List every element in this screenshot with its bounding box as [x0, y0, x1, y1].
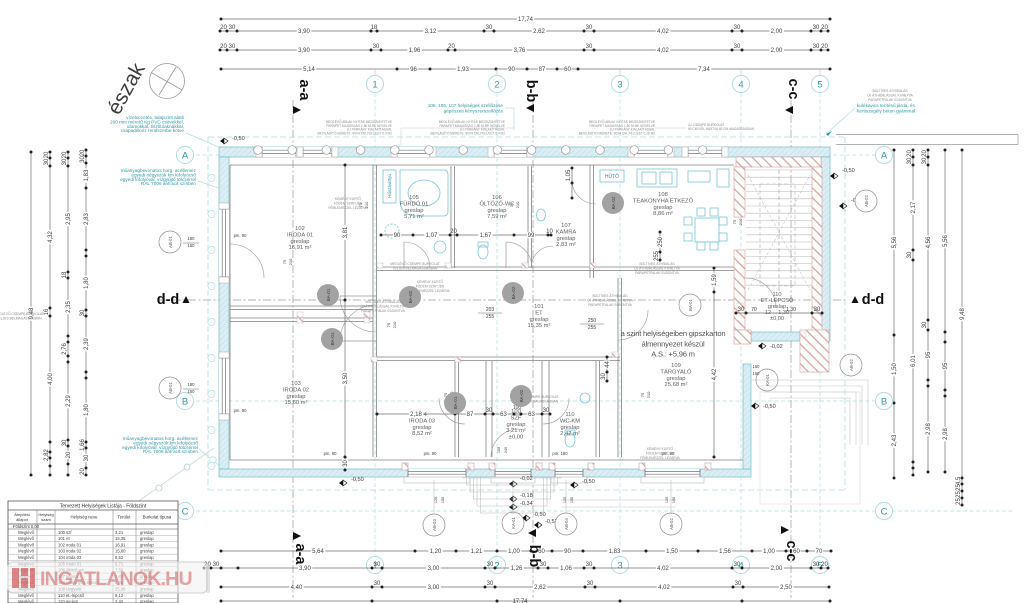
svg-text:IRODA 02: IRODA 02: [283, 387, 309, 393]
svg-text:2,76: 2,76: [62, 343, 68, 355]
svg-text:150: 150: [441, 497, 445, 503]
svg-text:pm. 90: pm. 90: [424, 451, 437, 456]
svg-text:BA-02: BA-02: [519, 389, 524, 402]
svg-text:2,62: 2,62: [534, 585, 546, 591]
svg-text:2,39: 2,39: [84, 338, 90, 350]
svg-text:70: 70: [816, 549, 823, 555]
svg-text:3,90: 3,90: [298, 29, 310, 35]
svg-text:30: 30: [813, 25, 820, 31]
svg-text:BA-02: BA-02: [511, 286, 516, 299]
svg-text:30: 30: [80, 156, 86, 163]
svg-text:30: 30: [373, 44, 380, 50]
svg-text:30: 30: [813, 44, 820, 50]
svg-text:b-b: b-b: [523, 80, 539, 103]
svg-text:ÚJ ÁTHIDALÁSSAL KIVÁLTVA: ÚJ ÁTHIDALÁSSAL KIVÁLTVA: [634, 266, 680, 270]
svg-text:1,30: 1,30: [786, 307, 796, 313]
svg-text:1,00: 1,00: [508, 549, 520, 555]
svg-text:30: 30: [80, 309, 86, 316]
svg-text:KAMRA: KAMRA: [556, 229, 577, 235]
svg-text:greslap: greslap: [653, 205, 672, 211]
svg-text:30: 30: [907, 157, 913, 164]
svg-text:110 et.-lépcső: 110 et.-lépcső: [58, 593, 85, 598]
svg-text:103: 103: [291, 381, 301, 387]
svg-text:8,52: 8,52: [115, 555, 124, 560]
svg-text:AB-01: AB-01: [168, 382, 173, 394]
svg-text:30: 30: [374, 581, 381, 587]
svg-text:Meglévő: Meglévő: [18, 549, 34, 554]
svg-text:75: 75: [386, 322, 391, 327]
svg-text:BEVILÁGÍTÓ MÉRETE: 90X4 CM, FE: BEVILÁGÍTÓ MÉRETE: 90X4 CM, FELÜLET 0,4 …: [317, 130, 392, 135]
svg-text:30: 30: [586, 562, 593, 568]
svg-text:a szint helyiségeiben gipszkar: a szint helyiségeiben gipszkarton: [621, 329, 726, 338]
svg-text:95: 95: [943, 362, 949, 369]
svg-text:120: 120: [665, 497, 669, 503]
svg-text:A: A: [881, 150, 888, 161]
svg-text:1,66: 1,66: [80, 439, 86, 451]
svg-text:AB-03: AB-03: [432, 519, 437, 531]
svg-text:greslap: greslap: [140, 549, 154, 554]
svg-text:TÁRGYALÓ: TÁRGYALÓ: [660, 368, 692, 375]
svg-text:18: 18: [371, 25, 378, 31]
svg-text:RAL 7006 anfracit színben: RAL 7006 anfracit színben: [141, 181, 196, 186]
svg-text:MEGLÉVŐ CSEMPE BURKOLAT: MEGLÉVŐ CSEMPE BURKOLAT: [0, 311, 44, 316]
svg-text:Hőszivattyú: Hőszivattyú: [387, 174, 392, 198]
svg-text:greslap: greslap: [140, 530, 154, 535]
svg-text:150: 150: [753, 364, 761, 369]
svg-text:3,90: 3,90: [299, 566, 311, 572]
svg-text:C: C: [182, 506, 189, 517]
svg-text:AB-02: AB-02: [864, 195, 869, 207]
svg-text:8,86 m²: 8,86 m²: [653, 211, 673, 217]
svg-text:1,00: 1,00: [763, 549, 775, 555]
svg-text:AB-01: AB-01: [168, 236, 173, 248]
svg-text:5,56: 5,56: [892, 236, 898, 248]
svg-text:3,21 m²: 3,21 m²: [506, 428, 526, 434]
svg-text:20: 20: [80, 149, 86, 156]
svg-text:FÖDÉM SZINTJÉN: FÖDÉM SZINTJÉN: [646, 450, 675, 455]
svg-text:AB-04: AB-04: [564, 518, 569, 530]
svg-text:BA-01: BA-01: [330, 332, 335, 345]
svg-text:ÚJ ÁTHIDALÁSSAL KIVÁLTVA: ÚJ ÁTHIDALÁSSAL KIVÁLTVA: [867, 93, 913, 97]
svg-text:greslap: greslap: [290, 239, 309, 245]
svg-text:1,83: 1,83: [609, 549, 621, 555]
svg-text:KÉMÉNY KÜRTŐ: KÉMÉNY KÜRTŐ: [335, 196, 362, 201]
svg-text:4,5: 4,5: [956, 476, 962, 485]
svg-text:1,50: 1,50: [666, 549, 678, 555]
svg-text:90: 90: [508, 67, 515, 73]
svg-text:20: 20: [821, 562, 828, 568]
svg-text:60: 60: [564, 67, 571, 73]
svg-text:1,83: 1,83: [84, 169, 90, 181]
svg-text:Meglévő: Meglévő: [18, 530, 34, 535]
svg-text:95: 95: [926, 351, 932, 358]
svg-text:kertiszegély beton gyámmal: kertiszegély beton gyámmal: [857, 108, 915, 113]
svg-text:±0,00: ±0,00: [770, 316, 784, 322]
svg-text:30: 30: [907, 251, 913, 258]
svg-text:4,56: 4,56: [926, 236, 932, 248]
svg-text:2,29: 2,29: [66, 395, 72, 407]
svg-text:8,52 m²: 8,52 m²: [412, 431, 432, 437]
svg-text:greslap: greslap: [487, 208, 506, 214]
svg-text:5,64: 5,64: [312, 549, 324, 555]
svg-text:2,00: 2,00: [771, 29, 783, 35]
svg-text:150: 150: [753, 371, 761, 376]
svg-text:B: B: [881, 396, 887, 407]
svg-text:greslap: greslap: [412, 425, 431, 431]
svg-text:2,00: 2,00: [771, 566, 783, 572]
svg-text:d-d: d-d: [862, 292, 885, 308]
svg-text:gépészeti kényszerszellőzés: gépészeti kényszerszellőzés: [444, 108, 504, 113]
svg-text:5,71 m²: 5,71 m²: [404, 214, 424, 220]
svg-text:pm. 180: pm. 180: [552, 451, 568, 456]
svg-text:30: 30: [487, 562, 494, 568]
svg-text:BA-01: BA-01: [453, 396, 458, 409]
svg-text:110: 110: [565, 412, 574, 418]
svg-text:TEAKONYHA ÉTKEZŐ: TEAKONYHA ÉTKEZŐ: [633, 197, 694, 204]
svg-text:FÉMLEMEZZEL LEZÁRVA: FÉMLEMEZZEL LEZÁRVA: [328, 205, 368, 210]
svg-text:30: 30: [486, 408, 493, 414]
svg-text:2,62: 2,62: [533, 29, 545, 35]
svg-text:4,02: 4,02: [657, 48, 669, 54]
svg-text:1,80: 1,80: [84, 404, 90, 416]
svg-text:63: 63: [528, 412, 535, 418]
svg-text:96: 96: [410, 67, 417, 73]
svg-text:25: 25: [956, 484, 962, 491]
svg-text:30: 30: [213, 562, 220, 568]
svg-text:BA-02: BA-02: [611, 196, 616, 209]
svg-text:Meglévő: Meglévő: [18, 555, 34, 560]
svg-text:2,42 m²: 2,42 m²: [560, 431, 580, 437]
svg-text:250: 250: [588, 318, 597, 324]
svg-text:AB-02: AB-02: [849, 359, 854, 371]
svg-text:4,02: 4,02: [658, 585, 670, 591]
svg-text:INGATLANOK.HU: INGATLANOK.HU: [40, 568, 192, 590]
svg-text:Meglévő: Meglévő: [18, 593, 34, 598]
svg-text:4,02: 4,02: [657, 29, 669, 35]
svg-text:d-d: d-d: [157, 292, 180, 308]
svg-text:BA-02: BA-02: [408, 290, 413, 303]
svg-text:30: 30: [62, 158, 68, 165]
svg-text:TELJES BELMAGASSÁGBAN: TELJES BELMAGASSÁGBAN: [393, 266, 439, 270]
svg-text:6,01: 6,01: [911, 355, 917, 367]
svg-text:3,21: 3,21: [115, 530, 124, 535]
svg-text:csapadékvíz rendszerbe kötve: csapadékvíz rendszerbe kötve: [121, 128, 185, 133]
svg-text:75: 75: [732, 219, 737, 224]
svg-text:30: 30: [922, 157, 928, 164]
svg-text:15,35 m²: 15,35 m²: [528, 323, 551, 329]
svg-text:A: A: [182, 150, 189, 161]
svg-text:B: B: [182, 396, 188, 407]
svg-text:2,98: 2,98: [943, 428, 949, 440]
svg-text:75: 75: [282, 259, 287, 264]
svg-text:KÉMÉNY KÜRTŐ: KÉMÉNY KÜRTŐ: [647, 446, 674, 451]
svg-text:1,67: 1,67: [480, 233, 492, 239]
svg-text:greslap: greslap: [529, 317, 548, 323]
svg-text:1,50: 1,50: [892, 363, 898, 375]
svg-text:KÉMÉNY KÜRTŐ: KÉMÉNY KÜRTŐ: [417, 279, 444, 284]
svg-text:2,43: 2,43: [892, 434, 898, 446]
svg-text:10: 10: [546, 229, 553, 235]
svg-text:1,20: 1,20: [430, 549, 442, 555]
svg-text:b-b: b-b: [526, 545, 542, 568]
svg-text:1,80: 1,80: [84, 277, 90, 289]
svg-text:FÉMLEMEZZEL LEZÁRVA: FÉMLEMEZZEL LEZÁRVA: [640, 455, 680, 460]
svg-text:150: 150: [570, 497, 574, 503]
svg-text:IRODA 03: IRODA 03: [409, 418, 435, 424]
svg-text:25: 25: [956, 491, 962, 498]
svg-text:110 wc-km: 110 wc-km: [58, 599, 78, 603]
svg-text:BA-01: BA-01: [326, 288, 331, 301]
svg-text:30: 30: [586, 44, 593, 50]
svg-text:BOLTÍVES ÁTHIDALÁS: BOLTÍVES ÁTHIDALÁS: [872, 89, 908, 93]
svg-text:SZF: SZF: [511, 415, 522, 421]
svg-text:Meglévő: Meglévő: [18, 536, 34, 541]
svg-text:3,50: 3,50: [343, 372, 349, 384]
svg-text:2,18: 2,18: [410, 412, 422, 418]
svg-text:16,91 m²: 16,91 m²: [289, 245, 312, 251]
svg-text:20: 20: [922, 150, 928, 157]
svg-text:99: 99: [528, 233, 535, 239]
svg-text:4,00: 4,00: [48, 373, 54, 385]
svg-text:15,60: 15,60: [115, 549, 126, 554]
svg-text:25: 25: [956, 498, 962, 505]
svg-text:30: 30: [487, 581, 494, 587]
svg-text:PARAPETFALAK ELBONTVA: PARAPETFALAK ELBONTVA: [868, 98, 912, 102]
svg-text:20: 20: [448, 44, 455, 50]
svg-text:30: 30: [343, 460, 349, 467]
svg-text:108: 108: [658, 192, 668, 198]
svg-text:17,74: 17,74: [512, 599, 528, 603]
svg-text:30: 30: [229, 44, 236, 50]
svg-text:BEVILÁGÍTÓ MÉRETE: 90X4 CM, FE: BEVILÁGÍTÓ MÉRETE: 90X4 CM, FELÜLET 0,26…: [579, 130, 656, 135]
svg-text:ET.-LÉPCSŐ: ET.-LÉPCSŐ: [761, 297, 794, 304]
svg-text:30: 30: [62, 439, 68, 446]
svg-text:3,00: 3,00: [428, 585, 440, 591]
svg-text:5,14: 5,14: [303, 67, 315, 73]
svg-text:szám: szám: [41, 517, 51, 522]
svg-text:102 iroda 01: 102 iroda 01: [58, 542, 82, 547]
svg-text:90: 90: [394, 233, 401, 239]
svg-text:3,81: 3,81: [343, 226, 349, 238]
svg-text:240: 240: [504, 447, 508, 453]
svg-text:c-c: c-c: [783, 541, 799, 562]
svg-text:BA-01: BA-01: [688, 299, 693, 311]
svg-text:5: 5: [817, 79, 822, 90]
svg-text:greslap: greslap: [140, 593, 154, 598]
svg-text:±0,00: ±0,00: [509, 435, 523, 441]
svg-text:pm. 90: pm. 90: [234, 408, 247, 413]
svg-text:kulékavics terítésű járda, és: kulékavics terítésű járda, és: [857, 103, 915, 108]
svg-text:103 iroda 02: 103 iroda 02: [58, 549, 82, 554]
svg-text:30: 30: [922, 321, 928, 328]
svg-text:20: 20: [220, 25, 227, 31]
svg-text:TELJES BELMAGASSÁGBAN: TELJES BELMAGASSÁGBAN: [0, 316, 42, 320]
svg-text:3: 3: [617, 79, 622, 90]
svg-text:3,76: 3,76: [514, 48, 526, 54]
svg-text:7,59 m²: 7,59 m²: [487, 214, 507, 220]
svg-text:állapot: állapot: [16, 517, 29, 522]
svg-text:30: 30: [229, 25, 236, 31]
svg-text:120: 120: [563, 497, 567, 503]
svg-text:5,56: 5,56: [943, 235, 949, 247]
svg-text:104 iroda 03: 104 iroda 03: [58, 555, 82, 560]
svg-text:greslap: greslap: [556, 236, 575, 242]
svg-text:-0,18: -0,18: [520, 493, 533, 499]
svg-text:210: 210: [392, 321, 397, 328]
svg-text:greslap: greslap: [506, 422, 525, 428]
svg-text:63: 63: [500, 412, 507, 418]
svg-text:20: 20: [44, 151, 50, 158]
svg-text:FÜRDŐ 01: FÜRDŐ 01: [400, 200, 429, 207]
svg-text:Meglévő: Meglévő: [18, 599, 34, 603]
svg-text:4,40: 4,40: [291, 585, 303, 591]
svg-text:2,95: 2,95: [66, 213, 72, 225]
svg-text:4,32: 4,32: [48, 231, 54, 243]
svg-text:greslap: greslap: [666, 376, 685, 382]
svg-text:-0,02: -0,02: [520, 476, 533, 482]
svg-text:90 CM-RŐL INDÍTVA 60 CM MAGASS: 90 CM-RŐL INDÍTVA 60 CM MAGASSÁGBAN: [688, 126, 755, 131]
svg-text:Tervezett Helyiségek Listája -: Tervezett Helyiségek Listája - Földszint: [60, 504, 147, 510]
svg-text:KA-01: KA-01: [511, 517, 516, 529]
svg-text:-0,50: -0,50: [582, 479, 595, 485]
svg-text:1,96: 1,96: [409, 48, 421, 54]
svg-text:Terület: Terület: [118, 515, 132, 520]
svg-text:180: 180: [188, 236, 196, 241]
svg-text:4: 4: [738, 79, 743, 90]
svg-text:30: 30: [601, 373, 607, 380]
svg-text:20: 20: [821, 44, 828, 50]
svg-text:87: 87: [467, 412, 474, 418]
svg-text:102: 102: [295, 226, 305, 232]
svg-text:100 szf: 100 szf: [58, 530, 72, 535]
svg-text:30: 30: [734, 25, 741, 31]
svg-text:FÖDÉM SZINTJÉN: FÖDÉM SZINTJÉN: [416, 283, 445, 288]
svg-text:2: 2: [494, 560, 499, 571]
svg-text:20: 20: [450, 229, 457, 235]
svg-text:75: 75: [509, 202, 514, 207]
svg-text:105: 105: [409, 195, 419, 201]
svg-text:IRODA 01: IRODA 01: [287, 232, 313, 238]
svg-text:30: 30: [813, 562, 820, 568]
svg-text:87: 87: [539, 67, 546, 73]
svg-text:HŰTŐ: HŰTŐ: [605, 173, 619, 180]
svg-text:210: 210: [738, 218, 743, 225]
svg-text:1,93: 1,93: [457, 67, 469, 73]
svg-text:BOLTÍVES ÁTHIDALÁS: BOLTÍVES ÁTHIDALÁS: [592, 294, 628, 298]
svg-text:100: 100: [497, 447, 501, 453]
svg-text:30: 30: [587, 581, 594, 587]
svg-text:4,02: 4,02: [657, 566, 669, 572]
svg-text:3,90: 3,90: [298, 48, 310, 54]
svg-text:Burkolat típusa: Burkolat típusa: [143, 515, 172, 520]
svg-text:4,42: 4,42: [712, 368, 718, 380]
svg-text:15,60 m²: 15,60 m²: [285, 400, 308, 406]
svg-text:pm. 90: pm. 90: [324, 451, 337, 456]
svg-text:20: 20: [62, 151, 68, 158]
svg-text:-0,02: -0,02: [770, 344, 783, 350]
svg-text:255: 255: [486, 314, 495, 320]
svg-text:18: 18: [62, 271, 68, 278]
svg-text:2,17: 2,17: [911, 201, 917, 213]
svg-text:44: 44: [605, 361, 611, 368]
svg-text:120: 120: [434, 497, 438, 503]
svg-text:2,83: 2,83: [84, 213, 90, 225]
svg-text:-0,50: -0,50: [842, 168, 855, 174]
svg-text:greslap: greslap: [140, 536, 154, 541]
svg-text:MEGLÉVŐ CSEMPE BURKOLAT: MEGLÉVŐ CSEMPE BURKOLAT: [390, 261, 440, 266]
svg-text:greslap: greslap: [560, 425, 579, 431]
svg-text:20: 20: [821, 25, 828, 31]
svg-text:150: 150: [188, 389, 196, 394]
svg-text:ÚJ ÁTHIDALÁSSAL KIVÁLTVA: ÚJ ÁTHIDALÁSSAL KIVÁLTVA: [587, 298, 633, 302]
svg-text:255: 255: [588, 325, 597, 331]
svg-text:1,59: 1,59: [712, 274, 718, 286]
svg-text:107: 107: [561, 223, 571, 229]
svg-text:70: 70: [751, 307, 757, 313]
svg-text:AB-02: AB-02: [669, 518, 674, 530]
svg-text:30: 30: [84, 454, 90, 461]
svg-text:PARAPETFALAK ELBONTVA: PARAPETFALAK ELBONTVA: [361, 309, 405, 313]
svg-text:1,07: 1,07: [426, 233, 438, 239]
svg-text:75: 75: [640, 392, 645, 397]
svg-text:101: 101: [534, 304, 544, 310]
svg-text:30: 30: [735, 581, 742, 587]
svg-text:3,12: 3,12: [425, 29, 437, 35]
svg-text:20: 20: [80, 468, 86, 475]
svg-text:150: 150: [188, 243, 196, 248]
svg-text:3,00: 3,00: [428, 566, 440, 572]
svg-text:1,05: 1,05: [566, 169, 572, 181]
svg-text:20: 20: [907, 150, 913, 157]
svg-text:30: 30: [44, 158, 50, 165]
svg-text:álmennyezet készül: álmennyezet készül: [641, 340, 705, 349]
svg-text:PARAPETFALAK ELBONTVA: PARAPETFALAK ELBONTVA: [588, 303, 632, 307]
svg-text:101 et: 101 et: [58, 536, 70, 541]
svg-text:106: 106: [492, 195, 502, 201]
svg-text:15,35: 15,35: [115, 536, 126, 541]
svg-text:greslap: greslap: [140, 542, 154, 547]
svg-text:1: 1: [372, 79, 377, 90]
svg-text:-0,50: -0,50: [232, 136, 245, 142]
svg-text:30: 30: [734, 44, 741, 50]
svg-text:RAL 7006 anfracit színben: RAL 7006 anfracit színben: [143, 449, 198, 454]
svg-text:1,26: 1,26: [511, 566, 523, 572]
svg-text:210: 210: [515, 201, 520, 208]
svg-text:greslap: greslap: [140, 599, 154, 603]
svg-text:2,50: 2,50: [780, 585, 792, 591]
svg-text:ET: ET: [535, 310, 543, 316]
svg-text:150: 150: [672, 497, 676, 503]
svg-text:203: 203: [486, 307, 495, 313]
svg-text:ÚJ ÁTHIDALÁSSAL KIVÁLTVA: ÚJ ÁTHIDALÁSSAL KIVÁLTVA: [360, 304, 406, 308]
svg-text:3: 3: [617, 560, 622, 571]
svg-text:255: 255: [654, 250, 660, 261]
svg-text:FÖDÉM SZINTJÉN: FÖDÉM SZINTJÉN: [334, 200, 363, 205]
svg-text:WC-KM: WC-KM: [560, 418, 580, 424]
svg-text:a-a: a-a: [292, 544, 308, 566]
svg-text:250: 250: [658, 236, 664, 247]
svg-text:30: 30: [486, 25, 493, 31]
svg-text:PARAPETFALAK ELBONTVA: PARAPETFALAK ELBONTVA: [635, 271, 679, 275]
svg-text:90: 90: [564, 549, 571, 555]
svg-text:210: 210: [646, 391, 651, 398]
svg-text:C: C: [881, 506, 888, 517]
svg-text:2,98: 2,98: [926, 423, 932, 435]
svg-text:2,82: 2,82: [44, 449, 50, 461]
svg-text:17,74: 17,74: [518, 17, 534, 23]
svg-text:pm. 90: pm. 90: [234, 233, 247, 238]
svg-text:BOLTÍVES ÁTHIDALÁS: BOLTÍVES ÁTHIDALÁS: [365, 300, 401, 304]
